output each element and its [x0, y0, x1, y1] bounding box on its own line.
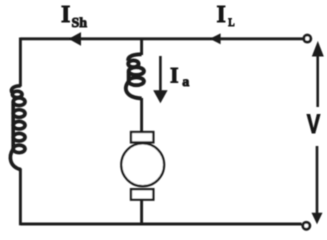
svg-text:a: a — [182, 75, 189, 90]
svg-text:V: V — [307, 109, 321, 140]
svg-text:L: L — [228, 16, 234, 29]
svg-text:I: I — [61, 2, 70, 28]
svg-text:Sh: Sh — [72, 16, 88, 31]
svg-text:I: I — [170, 62, 179, 87]
svg-text:I: I — [217, 2, 226, 28]
